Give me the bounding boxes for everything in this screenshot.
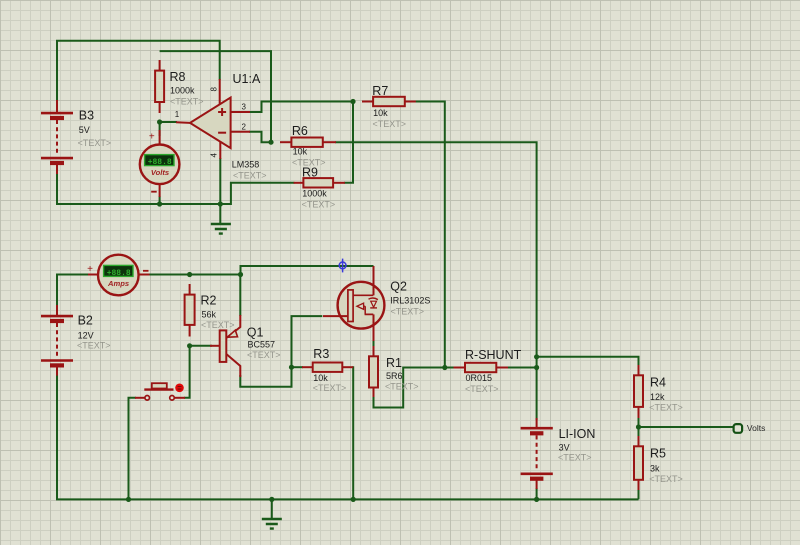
junction battery sense / R4 top [534, 354, 539, 359]
push button [135, 383, 185, 400]
svg-text:1000k: 1000k [302, 189, 327, 199]
junction op-amp output node [157, 119, 162, 124]
svg-text:<TEXT>: <TEXT> [385, 382, 419, 392]
svg-text:3: 3 [242, 103, 247, 112]
svg-text:B2: B2 [78, 314, 93, 328]
ground at bottom rail [271, 499, 273, 518]
node marker (blue origin) [339, 259, 346, 273]
wire Q1 emitter up to rail [239, 275, 241, 317]
svg-text:R3: R3 [313, 347, 329, 361]
junction R4/R5 divider output [636, 424, 641, 429]
svg-text:0R015: 0R015 [466, 373, 493, 383]
ammeter Amps [87, 255, 149, 296]
battery LI-ION [521, 418, 596, 489]
junction voltmeter minus on ground rail [157, 201, 162, 206]
svg-text:R9: R9 [302, 165, 318, 179]
wire R8 top to inverting node [160, 51, 271, 142]
battery B3 [41, 100, 111, 174]
svg-text:B3: B3 [79, 109, 94, 123]
svg-text:R8: R8 [170, 70, 186, 84]
wire B3+ to U1 pin8 top rail [57, 41, 220, 101]
svg-text:2: 2 [242, 123, 247, 132]
svg-text:10k: 10k [313, 373, 328, 383]
svg-text:+88.8: +88.8 [148, 158, 172, 167]
resistor R1 [369, 346, 419, 397]
wire R7/R9 vertical link [344, 102, 353, 183]
resistor R6 [280, 124, 336, 168]
svg-text:8: 8 [210, 86, 219, 91]
resistor R9 [294, 165, 345, 209]
junction R-SHUNT right / LI-ION plus [534, 365, 539, 370]
junction ground on bottom rail [269, 497, 274, 502]
junction LI-ION minus on bottom rail [534, 497, 539, 502]
wire U1 pin3 to R7/R9 node [249, 102, 353, 113]
svg-text:<TEXT>: <TEXT> [465, 384, 499, 394]
wire U1 pin2 jog to node [249, 132, 271, 142]
wire B3- bottom rail to R9 left [57, 173, 295, 204]
junction Q1 emitter on 12V rail [238, 272, 243, 277]
svg-text:R2: R2 [201, 294, 217, 308]
junction R2 bottom / Q1 base / button [187, 343, 192, 348]
wire R1 bottom loop to shunt node [374, 368, 456, 408]
svg-text:BC557: BC557 [248, 339, 276, 349]
resistor R8 [155, 60, 203, 113]
junction pin4 ground node [218, 201, 223, 206]
ground under op-amp [211, 224, 231, 234]
svg-text:<TEXT>: <TEXT> [302, 199, 336, 209]
transistor Q2 IRL3102S [323, 266, 430, 341]
svg-text:IRL3102S: IRL3102S [390, 296, 430, 306]
wire B2+ to ammeter [57, 275, 89, 308]
svg-text:<TEXT>: <TEXT> [313, 383, 347, 393]
svg-text:Q1: Q1 [247, 326, 264, 340]
wire Q2 source to R1 [373, 340, 375, 347]
wire R2 node down to button right [184, 346, 190, 398]
svg-text:+: + [87, 264, 93, 275]
junction non-inverting input node [350, 99, 355, 104]
svg-text:<TEXT>: <TEXT> [201, 320, 235, 330]
svg-text:R1: R1 [386, 356, 402, 370]
svg-text:56k: 56k [202, 310, 217, 320]
junction Q1 collector / R3 / Q2 gate [289, 365, 294, 370]
resistor R5 [634, 436, 683, 490]
junction R2 top on 12V rail [187, 272, 192, 277]
svg-text:<TEXT>: <TEXT> [233, 170, 267, 180]
svg-text:R-SHUNT: R-SHUNT [465, 348, 522, 362]
wire output node to op-amp pin1 [160, 121, 177, 123]
svg-text:U1:A: U1:A [233, 72, 261, 86]
resistor R7 [362, 84, 416, 129]
wire R4/R5 divider node to Volts terminal [638, 417, 640, 437]
transistor Q1 BC557 [210, 315, 281, 377]
svg-text:R5: R5 [650, 446, 666, 460]
junction button left on bottom rail [126, 497, 131, 502]
battery B2 [41, 305, 111, 376]
svg-text:5V: 5V [79, 125, 90, 135]
wire B2- down to bottom rail [57, 375, 639, 500]
wire Q1 collector to gate node [240, 316, 322, 387]
wire R7 right down to shunt node [415, 102, 445, 368]
svg-text:<TEXT>: <TEXT> [558, 453, 592, 463]
svg-text:1000k: 1000k [170, 86, 195, 96]
svg-text:Volts: Volts [747, 423, 765, 433]
junction R3 on bottom rail [351, 497, 356, 502]
junction R1 / R7 / R-SHUNT left [442, 365, 447, 370]
wire R-SHUNT right to LI-ION vertical [507, 367, 537, 369]
svg-text:LM358: LM358 [232, 160, 260, 170]
svg-text:10k: 10k [293, 147, 308, 157]
voltmeter Volts [140, 130, 180, 197]
svg-text:<TEXT>: <TEXT> [247, 350, 281, 360]
svg-text:<TEXT>: <TEXT> [170, 96, 204, 106]
svg-text:Volts: Volts [151, 168, 169, 177]
svg-text:4: 4 [210, 152, 219, 157]
wire LI-ION bottom to rail [536, 488, 538, 499]
svg-text:R7: R7 [372, 84, 388, 98]
svg-text:R4: R4 [650, 375, 666, 389]
wire gate node to R3 [292, 366, 304, 368]
svg-text:+: + [149, 131, 155, 142]
svg-text:3k: 3k [650, 464, 660, 474]
svg-text:Amps: Amps [107, 279, 129, 288]
svg-text:R6: R6 [292, 124, 308, 138]
wire R3 right down to bottom rail [352, 367, 353, 499]
svg-text:1: 1 [175, 110, 180, 119]
svg-text:<TEXT>: <TEXT> [391, 306, 425, 316]
wire battery-sense node to R4 top [537, 357, 639, 366]
wire button left to bottom rail [129, 398, 137, 500]
svg-text:5R6: 5R6 [386, 371, 403, 381]
terminal Volts [734, 423, 766, 433]
resistor R3 [302, 347, 353, 393]
svg-text:LI-ION: LI-ION [559, 427, 596, 441]
wire ammeter to R2/Q1 rail [149, 266, 374, 275]
wire output node to voltmeter [159, 122, 161, 136]
resistor R4 [634, 365, 683, 418]
svg-text:12k: 12k [650, 392, 665, 402]
svg-text:Q2: Q2 [390, 280, 407, 294]
svg-text:3V: 3V [559, 442, 570, 452]
svg-text:<TEXT>: <TEXT> [77, 341, 111, 351]
svg-text:<TEXT>: <TEXT> [373, 119, 407, 129]
svg-text:10k: 10k [373, 108, 388, 118]
op-amp U1:A LM358 [175, 72, 267, 180]
svg-text:12V: 12V [78, 331, 94, 341]
wire R5 bottom to rail [638, 489, 640, 499]
wire U1 pin4 to ground [219, 158, 221, 223]
junction inverting input node [268, 140, 273, 145]
wire voltmeter minus to bottom rail [159, 196, 161, 204]
svg-text:<TEXT>: <TEXT> [649, 474, 683, 484]
resistor R-SHUNT [454, 348, 522, 394]
wire R2 bottom node to Q1 base [190, 345, 212, 347]
resistor R2 [185, 284, 235, 337]
wire R6 right to battery-sense vertical [335, 142, 537, 420]
svg-text:<TEXT>: <TEXT> [649, 403, 683, 413]
svg-text:<TEXT>: <TEXT> [78, 138, 112, 148]
svg-text:+88.8: +88.8 [107, 269, 131, 278]
